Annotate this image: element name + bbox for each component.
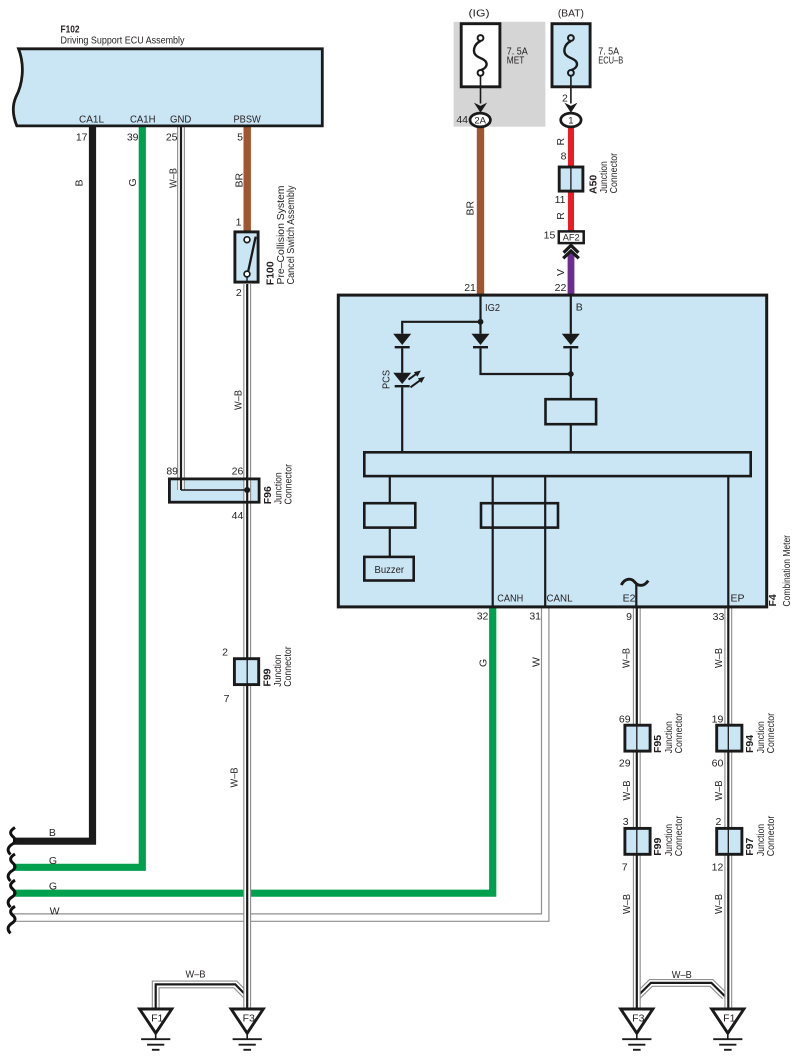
wire to left diode	[402, 322, 480, 334]
svg-text:Connector: Connector	[608, 152, 620, 193]
E2 AC squiggle symbol	[621, 579, 648, 585]
svg-text:Buzzer: Buzzer	[375, 564, 405, 576]
svg-text:7: 7	[224, 693, 230, 705]
svg-text:Connector: Connector	[673, 815, 685, 856]
wire W-B (GND pin 25 into F96 pin 89)	[177, 124, 185, 490]
svg-text:W–B: W–B	[621, 648, 633, 668]
connector AF2 box	[559, 231, 584, 243]
svg-text:G: G	[49, 881, 57, 893]
svg-text:29: 29	[619, 757, 631, 769]
svg-text:W: W	[531, 657, 543, 667]
svg-text:R: R	[555, 138, 567, 146]
wire BR (fuse 2A to meter pin 21)	[477, 127, 484, 297]
svg-text:AF2: AF2	[563, 233, 580, 244]
svg-text:31: 31	[529, 611, 541, 623]
wire fuse ECU-B to connector 1	[570, 76, 572, 104]
svg-text:5: 5	[237, 132, 243, 144]
wire CANL internal	[544, 476, 546, 605]
F96 internal busbar line	[181, 489, 247, 491]
junction connector F96 fill (wires drawn over it)	[168, 478, 261, 504]
wire E2 internal	[635, 584, 637, 606]
svg-text:W: W	[50, 905, 60, 917]
gray block behind IG fuse	[454, 22, 546, 127]
svg-text:B: B	[49, 827, 56, 839]
svg-text:25: 25	[166, 132, 178, 144]
svg-text:F4: F4	[767, 594, 779, 606]
svg-text:CANL: CANL	[547, 593, 573, 605]
fuse 7.5A ECU-B box	[552, 24, 590, 87]
svg-text:9: 9	[626, 611, 632, 623]
wire W (CANL pin 31 to left edge)	[13, 606, 545, 918]
fuse element ECU-B	[564, 35, 577, 76]
svg-text:2: 2	[562, 92, 568, 104]
svg-text:Connector: Connector	[282, 646, 294, 687]
svg-text:3: 3	[623, 816, 629, 828]
sub box left	[364, 503, 415, 527]
svg-text:(BAT): (BAT)	[558, 8, 584, 20]
JUNCTION F99 right	[625, 828, 650, 854]
wire B internal to diode D3	[570, 296, 572, 334]
svg-text:1: 1	[236, 217, 242, 229]
break squiggle G2	[8, 880, 15, 907]
junction node dot	[568, 371, 574, 377]
svg-text:B: B	[576, 302, 583, 314]
GROUND F1 left	[140, 1009, 172, 1050]
svg-text:2A: 2A	[474, 115, 486, 126]
JUNCTION F99 left	[234, 659, 258, 685]
wire BR (PBSW pin 5 to switch F100)	[243, 124, 250, 232]
svg-text:60: 60	[712, 757, 724, 769]
svg-text:F1: F1	[151, 1013, 163, 1025]
svg-text:15: 15	[544, 230, 556, 242]
svg-text:Connector: Connector	[283, 464, 295, 505]
svg-text:F3: F3	[632, 1013, 644, 1025]
svg-text:2: 2	[715, 816, 721, 828]
wire CANH internal	[492, 476, 494, 605]
svg-text:F3: F3	[243, 1013, 255, 1025]
svg-text:IG2: IG2	[485, 302, 500, 314]
svg-text:44: 44	[456, 114, 468, 126]
svg-text:F1: F1	[723, 1013, 735, 1025]
svg-text:W–B: W–B	[186, 968, 206, 980]
svg-text:W–B: W–B	[621, 894, 633, 914]
svg-text:Connector: Connector	[765, 712, 777, 753]
svg-text:PCS: PCS	[381, 370, 393, 389]
F96 border restroke	[169, 479, 259, 502]
wire D2 to junction	[481, 348, 571, 374]
svg-text:1: 1	[568, 115, 573, 126]
svg-text:39: 39	[127, 132, 139, 144]
svg-text:CANH: CANH	[497, 593, 523, 605]
svg-text:R: R	[555, 212, 567, 220]
wire R (A50 pin 11 to AF2 pin 15)	[568, 191, 574, 231]
svg-text:8: 8	[561, 151, 567, 163]
ECU F102 Driving Support ECU Assembly box	[13, 49, 322, 126]
wire busbar to sub box	[389, 476, 391, 503]
JUNCTION F94	[717, 725, 742, 751]
wire LED to busbar	[401, 387, 403, 452]
svg-text:PBSW: PBSW	[234, 113, 261, 125]
svg-text:BR: BR	[233, 172, 245, 187]
GROUND F3 left	[231, 1009, 263, 1050]
svg-text:69: 69	[619, 713, 631, 725]
svg-text:2: 2	[222, 647, 228, 659]
svg-text:G: G	[49, 855, 57, 867]
arrow into 2A	[474, 103, 487, 113]
wire B (CA1L pin 17, black, to left edge)	[13, 124, 93, 841]
svg-text:GND: GND	[170, 113, 192, 125]
svg-text:BR: BR	[465, 200, 477, 215]
diode D2 middle	[472, 334, 490, 347]
svg-text:33: 33	[713, 611, 725, 623]
fuse 7.5A MET box	[461, 24, 500, 87]
busbar box	[364, 452, 750, 476]
svg-text:V: V	[555, 269, 567, 276]
break squiggle B	[8, 828, 15, 855]
wire EP internal	[727, 476, 729, 605]
svg-text:EP: EP	[731, 593, 745, 605]
svg-text:32: 32	[477, 611, 489, 623]
svg-text:MET: MET	[507, 54, 525, 66]
wire G (CA1H pin 39, green, to left edge)	[13, 124, 142, 867]
break squiggle W	[8, 906, 15, 933]
svg-text:G: G	[127, 178, 139, 186]
shield chevrons	[563, 245, 579, 258]
svg-text:26: 26	[232, 466, 244, 478]
JUNCTION F95	[625, 725, 650, 751]
svg-text:2: 2	[236, 287, 242, 299]
break squiggle G	[8, 854, 15, 881]
wire G (CANH pin 32 to left edge)	[13, 606, 493, 893]
wire fuse MET to connector 2A	[480, 76, 482, 104]
svg-text:(IG): (IG)	[469, 8, 490, 20]
svg-text:11: 11	[555, 194, 566, 206]
svg-text:12: 12	[712, 861, 724, 873]
connector oval 1	[561, 113, 581, 127]
svg-text:W–B: W–B	[713, 781, 725, 801]
svg-text:7: 7	[622, 861, 628, 873]
wire W-B (meter EP pin 33 through F94, F97 to ground F1 right)	[724, 606, 732, 1009]
svg-text:44: 44	[232, 510, 244, 522]
SWITCH F100	[235, 232, 258, 283]
diode D1 left	[393, 334, 411, 347]
wire sub box to buzzer	[389, 528, 391, 557]
svg-text:Connector: Connector	[673, 712, 685, 753]
F96 junction dot	[244, 487, 250, 493]
svg-text:W–B: W–B	[672, 969, 692, 981]
svg-text:G: G	[478, 659, 490, 667]
svg-text:Cancel Switch Assembly: Cancel Switch Assembly	[285, 185, 297, 285]
svg-text:89: 89	[166, 466, 178, 478]
wire W-B (meter E2 pin 9 through F95, F99 to ground F3 right)	[633, 606, 641, 1009]
wire V (AF2 to meter pin 22)	[568, 253, 575, 296]
wire IC to busbar	[570, 424, 572, 452]
wire D3 down to IC	[570, 348, 572, 399]
svg-text:W–B: W–B	[229, 768, 241, 788]
IC box	[546, 399, 597, 424]
svg-text:B: B	[74, 179, 86, 186]
LED PCS	[393, 371, 425, 388]
junction connector A50	[559, 167, 583, 191]
svg-text:19: 19	[712, 713, 724, 725]
svg-text:E2: E2	[623, 593, 636, 605]
COMBINATION METER BOX F4	[338, 295, 766, 607]
JUNCTION F97	[717, 828, 742, 854]
svg-text:W–B: W–B	[167, 168, 179, 188]
diode D3 right	[562, 334, 580, 347]
svg-text:W–B: W–B	[621, 781, 633, 801]
svg-text:21: 21	[464, 282, 476, 294]
GROUND F1 right	[712, 1009, 744, 1050]
svg-text:22: 22	[555, 282, 567, 294]
connector oval 2A	[470, 113, 490, 127]
buzzer box	[364, 557, 413, 581]
svg-text:Connector: Connector	[765, 815, 777, 856]
svg-text:W–B: W–B	[233, 390, 245, 410]
fuse element MET	[474, 35, 487, 76]
wire D1 to LED	[401, 348, 403, 372]
CAN box	[481, 503, 558, 527]
svg-text:ECU–B: ECU–B	[598, 54, 623, 66]
junction node dot IG2	[478, 319, 484, 325]
svg-text:Driving Support ECU Assembly: Driving Support ECU Assembly	[61, 35, 186, 47]
wire W-B interconnect ground F1 left	[156, 984, 247, 1009]
svg-text:W–B: W–B	[713, 648, 725, 668]
svg-text:W–B: W–B	[713, 894, 725, 914]
svg-text:Combination Meter: Combination Meter	[781, 535, 793, 607]
svg-text:CA1L: CA1L	[79, 113, 104, 125]
wire IG2 internal	[479, 296, 481, 334]
GROUND F3 right	[621, 1009, 653, 1050]
arrow into 1	[564, 103, 577, 113]
wire W-B interconnect grounds right	[637, 983, 725, 996]
wire R (fuse 1 to A50 pin 8)	[568, 127, 574, 168]
svg-text:CA1H: CA1H	[130, 113, 156, 125]
svg-text:17: 17	[76, 132, 88, 144]
wire W-B (switch F100 pin 2 through F96 pin 26/44, F99 to ground F3 left)	[243, 284, 251, 1009]
